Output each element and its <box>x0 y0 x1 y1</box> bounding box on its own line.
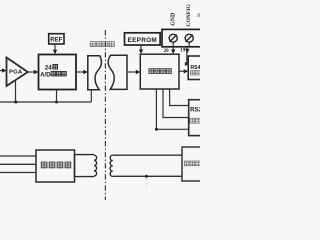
terminal screw CONFIG <box>185 34 193 42</box>
svg-text:EEPROM: EEPROM <box>128 37 158 44</box>
ADC U1 24-bit converter box <box>39 55 77 90</box>
wire power input line 2 <box>0 163 36 165</box>
svg-text:CONFIG: CONFIG <box>186 4 192 27</box>
transformer T1 secondary winding <box>110 155 113 176</box>
isolator left half <box>88 56 102 90</box>
svg-text:PGA: PGA <box>9 69 23 75</box>
wire EEPROM to MCU <box>140 45 142 50</box>
isolator right half <box>108 55 127 89</box>
wire MCU bus line 2 <box>163 89 189 118</box>
wire ADC ground drop <box>56 90 58 103</box>
node junction secondary bottom <box>145 175 148 178</box>
isolation barrier dashed line <box>104 30 106 200</box>
terminal block J1 <box>162 29 203 46</box>
power supply box <box>182 147 203 181</box>
label isolation circuit <box>90 42 114 47</box>
svg-text:N: N <box>197 13 200 17</box>
wire CONFIG terminal to RS1 <box>188 42 190 46</box>
MCU U2 box <box>140 54 179 89</box>
svg-text:24: 24 <box>45 64 53 71</box>
wire input signal <box>0 70 3 72</box>
transformer T1 primary frame <box>75 155 95 177</box>
wire isolator ground drop <box>90 90 92 102</box>
RS2 interface box <box>189 100 203 136</box>
RS1 interface box <box>188 56 203 80</box>
wire power input line 3 <box>0 172 36 174</box>
wire MCU bus line 1 <box>170 89 189 106</box>
wire power input line 1 <box>0 155 36 157</box>
transformer T1 primary winding <box>94 155 97 176</box>
svg-text:REF: REF <box>50 38 62 44</box>
node junction PGA rail <box>14 101 17 104</box>
op-amp PGA <box>7 58 28 87</box>
wire PGA to ADC <box>28 71 35 73</box>
filter box <box>36 150 75 182</box>
wire isolator to MCU <box>127 71 137 73</box>
node junction ADC rail <box>55 101 58 104</box>
wire MCU bus line 3 <box>156 89 188 129</box>
terminal screw GND <box>169 34 177 42</box>
svg-text:A/D: A/D <box>40 72 51 78</box>
svg-text:RS48: RS48 <box>190 65 200 71</box>
svg-text:20: 20 <box>164 49 170 54</box>
wire analog common rail <box>0 101 91 103</box>
REF box <box>49 34 64 44</box>
wire faint drop from junction <box>145 178 147 188</box>
wire secondary bottom <box>113 175 182 177</box>
wire MCU to RS1 <box>179 70 186 72</box>
wire secondary top <box>113 154 182 156</box>
svg-text:RS23: RS23 <box>190 107 200 114</box>
svg-text:19: 19 <box>180 48 186 53</box>
wire GND terminal to MCU <box>172 42 174 50</box>
wire PGA ground drop <box>15 80 17 102</box>
wire ADC to isolator <box>76 71 85 73</box>
svg-text:GND: GND <box>170 13 176 26</box>
EEPROM U3 box <box>125 33 161 45</box>
wire REF to ADC <box>54 44 56 50</box>
node junction bus line 3 <box>155 128 158 131</box>
